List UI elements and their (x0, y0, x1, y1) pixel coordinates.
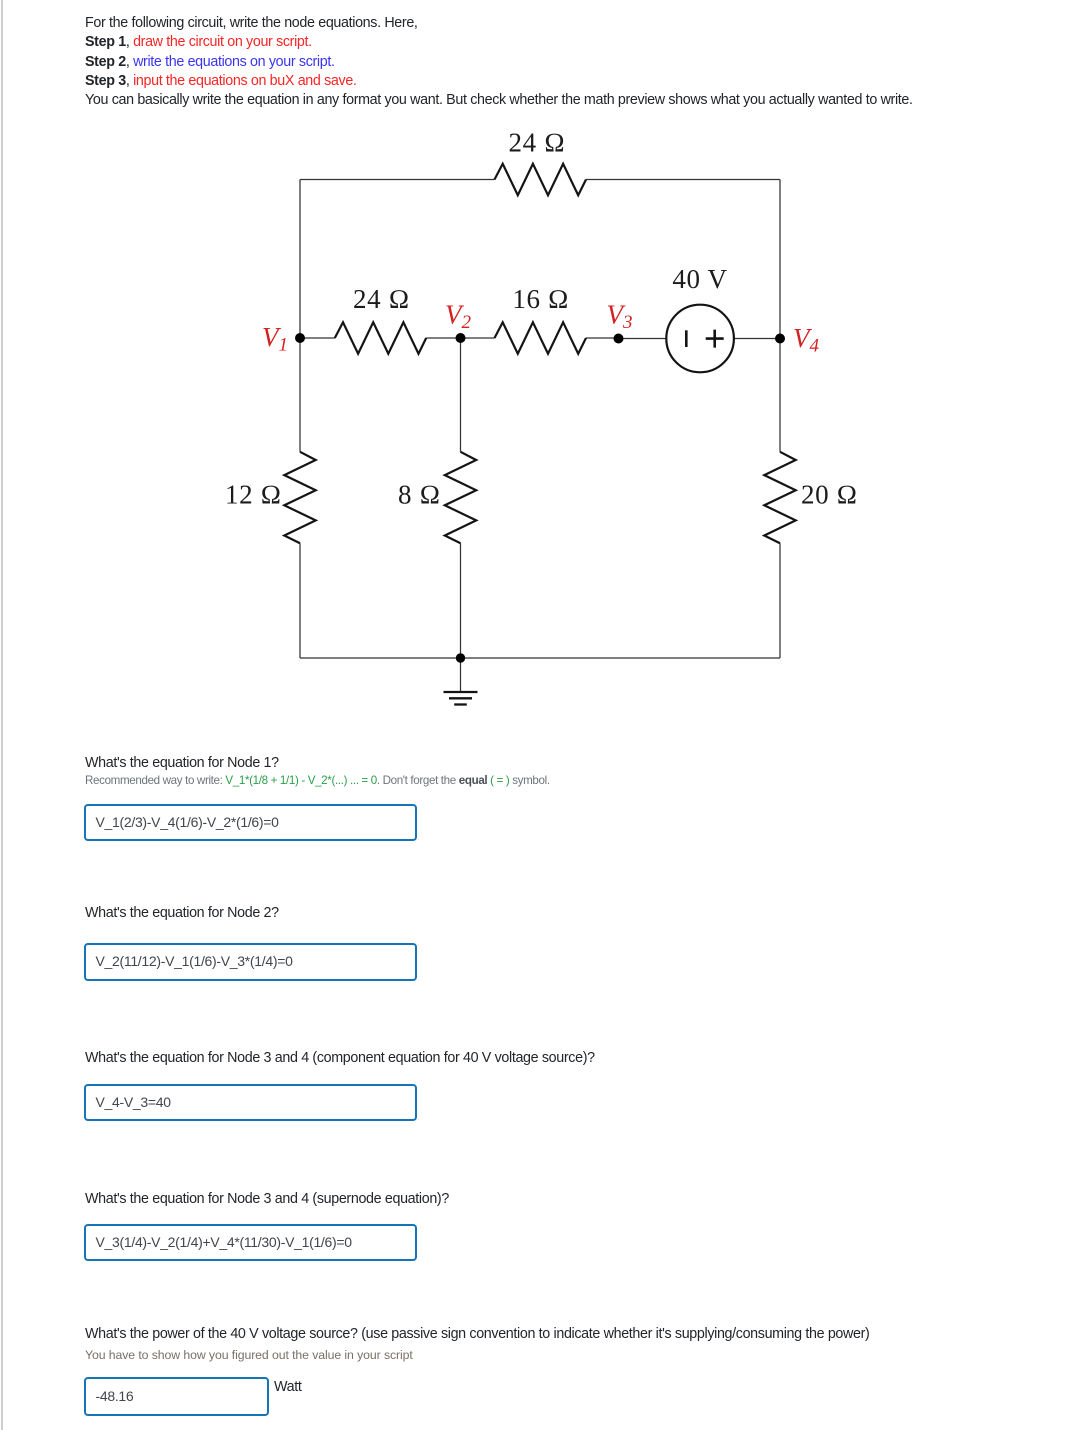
ground junction dot (456, 653, 465, 662)
svg-text:V4: V4 (793, 323, 820, 357)
resistor 12ohm (284, 452, 315, 543)
wire top-left rail (300, 179, 495, 181)
wire right rail upper (779, 180, 781, 339)
wire V3 to source (619, 338, 667, 340)
resistor 8ohm (445, 452, 476, 543)
resistor 24ohm top (495, 164, 587, 195)
svg-text:24 Ω: 24 Ω (509, 128, 566, 158)
wire V2 down lower (460, 543, 462, 658)
voltage source plus sign (706, 330, 724, 348)
svg-text:12 Ω: 12 Ω (225, 480, 282, 510)
wire ground stub (460, 658, 462, 691)
wire right rail mid (779, 338, 781, 452)
svg-text:16 Ω: 16 Ω (512, 284, 569, 314)
node V2 junction dot (456, 333, 466, 343)
wire source to V4 (734, 338, 780, 340)
voltage source minus terminal bar (685, 330, 688, 347)
ground bar 3 (454, 703, 467, 705)
wire bottom rail (300, 657, 780, 659)
resistor 16ohm (495, 322, 587, 353)
wire V2 to 16ohm (461, 337, 495, 339)
svg-text:20 Ω: 20 Ω (801, 480, 858, 510)
ground bar 1 (444, 691, 478, 693)
svg-text:24 Ω: 24 Ω (353, 284, 410, 314)
resistor 24ohm middle (335, 322, 426, 353)
wire V1 to 24ohm (300, 337, 335, 339)
node V4 junction dot (775, 334, 785, 344)
voltage source V 40V circle (666, 305, 734, 373)
node V1 junction dot (295, 333, 305, 343)
svg-text:V2: V2 (445, 300, 472, 334)
resistor 20ohm (764, 452, 795, 543)
ground bar 2 (449, 697, 472, 699)
wire left rail lower (299, 543, 301, 658)
node V3 junction dot (614, 334, 624, 344)
wire top-right rail (586, 179, 780, 181)
wire 24ohm to V2 (426, 337, 460, 339)
wire right rail lower (779, 543, 781, 658)
svg-text:V3: V3 (607, 300, 633, 334)
wire left rail mid (299, 338, 301, 452)
wire 16ohm to V3 (586, 337, 619, 339)
svg-text:40 V: 40 V (672, 264, 727, 294)
svg-text:8 Ω: 8 Ω (398, 480, 441, 510)
wire V2 down upper (460, 338, 462, 452)
wire left rail upper (299, 180, 301, 339)
svg-text:V1: V1 (262, 322, 288, 356)
